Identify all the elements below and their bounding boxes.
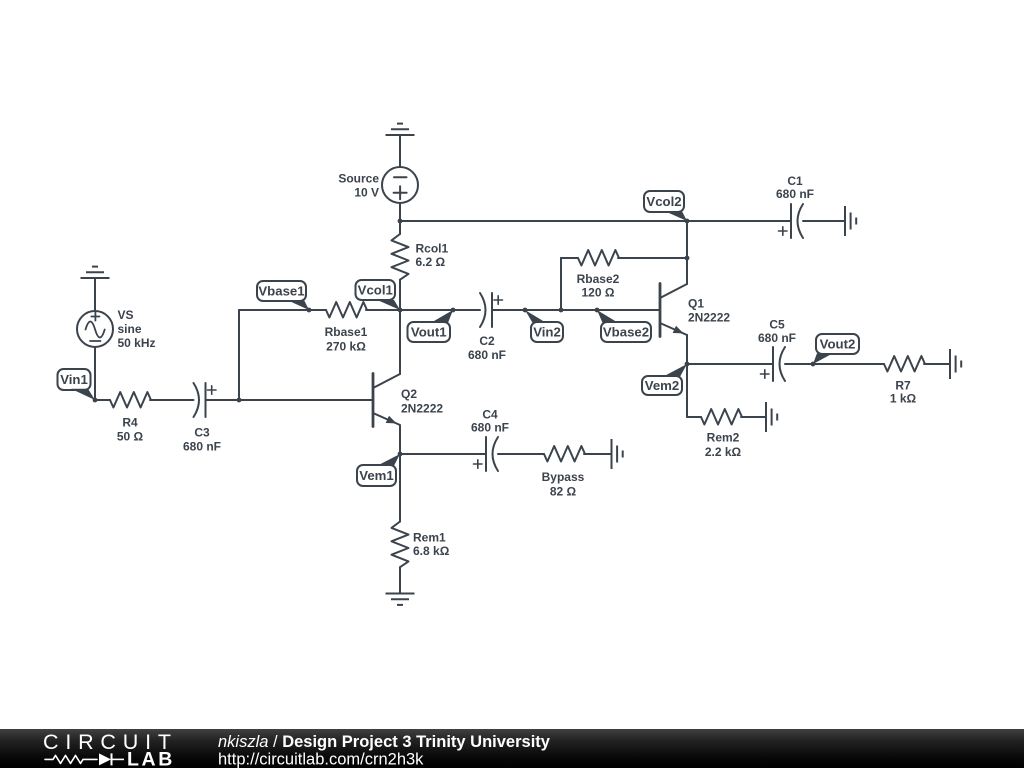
ground GND2 (above Source)	[386, 134, 415, 136]
svg-text:Vout1: Vout1	[411, 325, 447, 340]
svg-text:Vin2: Vin2	[533, 325, 561, 340]
junction node at C3/Rbase1	[237, 398, 242, 403]
wire Vem1 to Rem1	[399, 454, 401, 522]
svg-text:Vcol1: Vcol1	[358, 283, 393, 298]
wire C2 to Q1 base	[492, 309, 660, 311]
transistor Q2 2N2222	[372, 374, 375, 427]
svg-text:Vcol2: Vcol2	[646, 194, 681, 209]
node Vcol2	[644, 191, 684, 212]
wire junction up	[238, 310, 240, 400]
wire top rail	[400, 220, 791, 222]
capacitor C1 680 nF	[790, 204, 792, 238]
ground GND4 (right of Rem2)	[765, 402, 767, 432]
svg-text:82 Ω: 82 Ω	[550, 485, 577, 499]
svg-text:10 V: 10 V	[354, 185, 379, 199]
svg-text:120 Ω: 120 Ω	[582, 286, 615, 300]
svg-text:50 kHz: 50 kHz	[118, 336, 156, 350]
svg-text:2N2222: 2N2222	[688, 311, 730, 325]
wire C3 to Q2 base	[206, 399, 374, 401]
svg-text:6.8 kΩ: 6.8 kΩ	[413, 544, 450, 558]
resistor Rbase1 270k	[326, 302, 367, 318]
svg-text:680 nF: 680 nF	[183, 440, 221, 454]
resistor Rem1 6.8k	[399, 454, 401, 522]
svg-text:680 nF: 680 nF	[776, 187, 814, 201]
transistor Q1 2N2222	[659, 284, 662, 337]
svg-text:680 nF: 680 nF	[468, 348, 506, 362]
svg-text:680 nF: 680 nF	[471, 421, 509, 435]
node Vbase1	[257, 281, 306, 301]
wire C1 to ground	[803, 220, 845, 222]
wire Vcol2 to Q1 collector	[686, 221, 688, 284]
svg-text:VS: VS	[118, 308, 134, 322]
node Vem1	[357, 465, 396, 486]
capacitor C3 680 nF	[194, 383, 200, 417]
wire Source to rail	[399, 203, 401, 221]
svg-text:Rem1: Rem1	[413, 531, 446, 545]
wire Vem1 to C4	[400, 453, 486, 455]
ground GND1 (above VS)	[81, 277, 110, 279]
wire C4 to Bypass	[498, 453, 544, 455]
resistor R7 1k	[884, 356, 925, 372]
resistor Rcol1 6.2	[399, 221, 401, 234]
wire to Vbase1	[239, 309, 326, 311]
node Vout1	[408, 322, 451, 342]
svg-text:Rbase2: Rbase2	[577, 272, 620, 286]
svg-text:Q1: Q1	[688, 296, 704, 310]
resistor Rbase2 120	[561, 257, 578, 259]
svg-text:C4: C4	[482, 407, 498, 421]
svg-text:C3: C3	[194, 425, 210, 439]
svg-text:Rcol1: Rcol1	[416, 241, 449, 255]
resistor Bypass 82	[544, 446, 585, 462]
svg-text:Vbase1: Vbase1	[258, 284, 304, 299]
wire C5 to R7	[785, 363, 884, 365]
node Vin2	[531, 322, 563, 342]
svg-text:Source: Source	[338, 172, 379, 186]
svg-text:Rem2: Rem2	[707, 431, 740, 445]
node Vcol1	[356, 280, 396, 300]
svg-text:Q2: Q2	[401, 387, 417, 401]
svg-text:2N2222: 2N2222	[401, 401, 443, 415]
wire Q2 collector up	[399, 310, 401, 374]
footer bar	[0, 729, 1024, 768]
wire Rbase1 to C2	[366, 309, 480, 311]
svg-text:LAB: LAB	[127, 749, 175, 768]
svg-text:C5: C5	[769, 318, 785, 332]
capacitor C5 680 nF	[772, 347, 774, 381]
svg-text:Vout2: Vout2	[820, 337, 856, 352]
svg-text:6.2 Ω: 6.2 Ω	[416, 255, 446, 269]
node Vout2	[816, 334, 859, 354]
junction node Rbase2 left	[559, 308, 564, 313]
svg-text:http://circuitlab.com/crn2h3k: http://circuitlab.com/crn2h3k	[218, 751, 424, 768]
wire Q2 emitter down	[399, 426, 401, 454]
node Vem2	[642, 376, 682, 395]
capacitor C4 680 nF	[485, 437, 487, 471]
svg-text:nkiszla / Design Project 3 Tri: nkiszla / Design Project 3 Trinity Unive…	[218, 733, 551, 751]
svg-text:Bypass: Bypass	[542, 470, 585, 484]
svg-text:R7: R7	[895, 378, 911, 392]
ground GND5 (right of R7)	[949, 349, 951, 379]
svg-text:2.2 kΩ: 2.2 kΩ	[705, 445, 742, 459]
junction node Rbase2 right	[685, 256, 690, 261]
svg-text:270 kΩ: 270 kΩ	[326, 340, 366, 354]
svg-text:1 kΩ: 1 kΩ	[890, 392, 917, 406]
resistor Rem2 2.2k	[701, 409, 742, 425]
svg-text:Vbase2: Vbase2	[603, 325, 649, 340]
ground GND6 (right of Bypass)	[611, 439, 613, 469]
svg-text:Vin1: Vin1	[60, 372, 88, 387]
svg-text:C2: C2	[479, 334, 495, 348]
wire Vem2 to Rem2	[686, 364, 688, 417]
voltage source VS sine 50 kHz	[77, 311, 113, 347]
voltage source Source 10 V	[382, 167, 418, 203]
svg-text:C1: C1	[787, 174, 803, 188]
wire VS to Vin1	[94, 347, 96, 400]
capacitor C2 680 nF	[480, 293, 486, 327]
svg-text:Rbase1: Rbase1	[325, 325, 368, 339]
wire Vem2 to C5	[687, 363, 773, 365]
node Vbase2	[601, 322, 651, 342]
svg-text:680 nF: 680 nF	[758, 331, 796, 345]
wire Q1 emitter down	[686, 335, 688, 364]
svg-text:Vem1: Vem1	[359, 468, 393, 483]
svg-text:50 Ω: 50 Ω	[117, 430, 144, 444]
resistor R4 50	[95, 399, 110, 401]
wire Rbase2 left leg	[560, 258, 562, 310]
svg-text:R4: R4	[122, 415, 138, 429]
ground GND7 (below Rem1)	[386, 593, 415, 595]
logo resistor-diode symbol	[45, 755, 97, 763]
svg-text:sine: sine	[118, 322, 142, 336]
ground GND3 (right of C1)	[844, 206, 846, 236]
junction node Source/rail	[398, 219, 403, 224]
node Vin1	[58, 369, 91, 390]
svg-text:Vem2: Vem2	[645, 378, 679, 393]
